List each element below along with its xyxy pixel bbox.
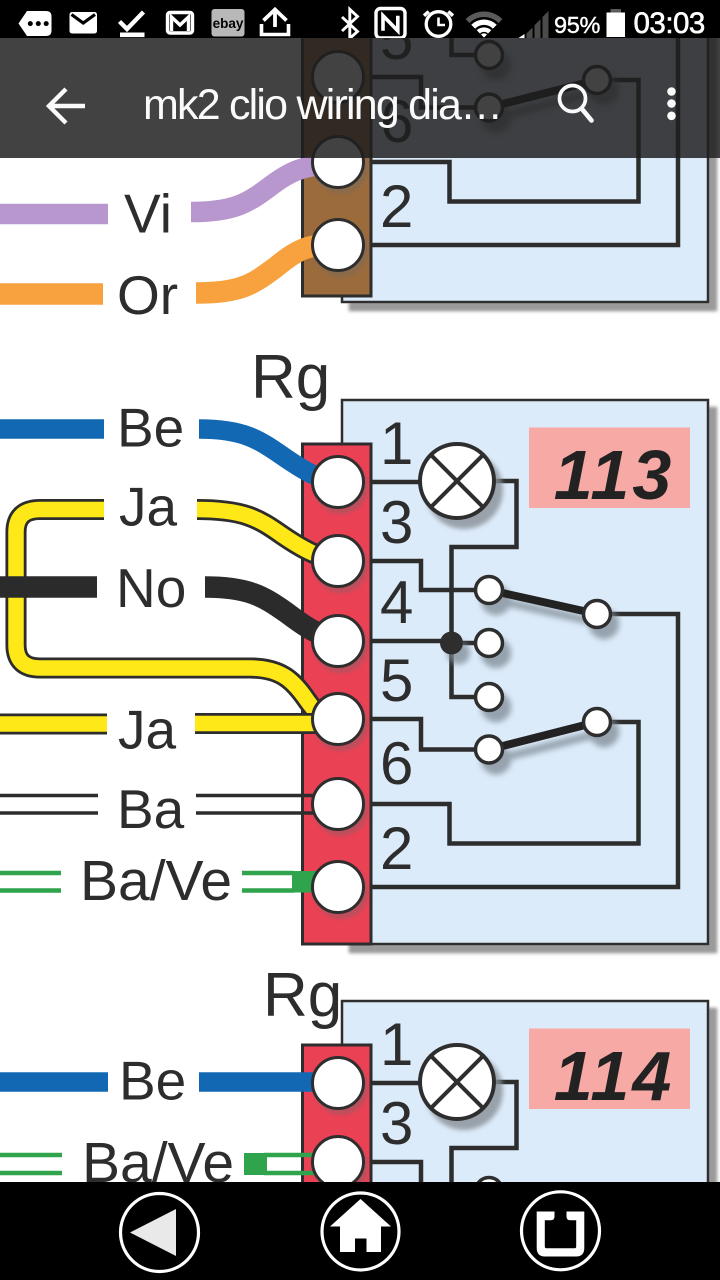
svg-text:1: 1	[380, 1011, 413, 1078]
svg-text:Rg: Rg	[263, 961, 342, 1030]
svg-text:Be: Be	[119, 1050, 186, 1112]
svg-text:1: 1	[380, 410, 413, 477]
svg-text:95%: 95%	[554, 12, 601, 38]
svg-text:03:03: 03:03	[634, 7, 705, 38]
svg-text:Be: Be	[117, 397, 184, 459]
svg-text:3: 3	[380, 1090, 413, 1157]
svg-text:6: 6	[380, 730, 413, 797]
svg-text:No: No	[116, 557, 186, 619]
svg-text:5: 5	[380, 647, 413, 714]
svg-text:3: 3	[380, 489, 413, 556]
svg-text:Vi: Vi	[124, 183, 172, 245]
svg-text:ebay: ebay	[213, 16, 244, 31]
svg-text:Or: Or	[117, 264, 178, 326]
svg-text:113: 113	[554, 436, 675, 514]
svg-text:Rg: Rg	[251, 343, 330, 412]
svg-text:2: 2	[380, 173, 413, 240]
svg-text:Ba/Ve: Ba/Ve	[80, 849, 232, 913]
svg-text:114: 114	[554, 1037, 675, 1115]
svg-text:Ja: Ja	[118, 699, 177, 761]
svg-text:2: 2	[380, 815, 413, 882]
svg-text:Ja: Ja	[119, 476, 178, 538]
svg-text:4: 4	[380, 569, 413, 636]
svg-text:mk2 clio wiring dia…: mk2 clio wiring dia…	[143, 81, 501, 129]
svg-text:Ba: Ba	[117, 778, 185, 840]
